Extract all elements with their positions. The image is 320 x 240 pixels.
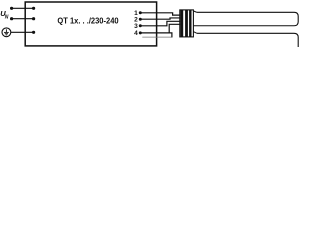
svg-text:N: N [5,14,9,20]
svg-text:4: 4 [134,30,138,37]
svg-text:QT 1x. . ./230-240: QT 1x. . ./230-240 [57,17,119,26]
svg-text:3: 3 [134,23,138,30]
